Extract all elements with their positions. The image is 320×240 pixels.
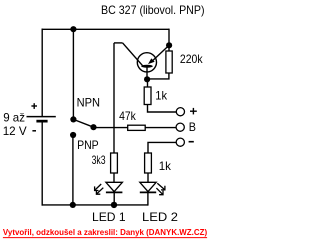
svg-text:9 až: 9 až <box>3 111 25 125</box>
transistor T1 base bar <box>141 65 153 68</box>
svg-text:Vytvořil, odzkoušel a zakresli: Vytvořil, odzkoušel a zakreslil: Danyk (… <box>3 227 207 237</box>
LED1 arrow 2 <box>96 188 103 195</box>
credit underline <box>3 237 207 239</box>
terminal B <box>176 123 184 131</box>
resistor 47k <box>128 125 146 130</box>
wire base vertical <box>113 43 115 153</box>
wire 3k3 to LED1 <box>113 173 115 183</box>
wire minus terminal to 1k lower <box>148 142 176 153</box>
label plus <box>190 108 197 115</box>
resistor 3k3 <box>111 153 118 173</box>
svg-text:NPN: NPN <box>77 95 100 109</box>
wire top rail <box>42 28 170 30</box>
battery plus sign <box>31 103 37 109</box>
LED2 arrow 1 <box>157 183 165 190</box>
switch S1 lever <box>73 119 93 127</box>
svg-text:LED 1: LED 1 <box>92 210 126 224</box>
wire 1k lower to LED2 <box>147 173 149 183</box>
node emitter junction <box>166 42 172 48</box>
LED2 arrow 2 <box>156 188 163 195</box>
node top junction <box>70 26 76 32</box>
switch S1 contact PNP <box>70 132 76 138</box>
wire collector node to 1k <box>147 79 149 87</box>
svg-text:BC 327 (libovol. PNP): BC 327 (libovol. PNP) <box>101 3 205 17</box>
wire 1k to plus terminal <box>148 105 177 113</box>
node bottom-left junction <box>70 202 76 208</box>
svg-text:PNP: PNP <box>77 138 99 152</box>
resistor 1k upper <box>144 87 151 105</box>
wire left rail (battery + side up) <box>41 29 43 117</box>
transistor T1 emitter wire <box>151 45 169 62</box>
resistor 1k lower <box>145 153 152 173</box>
svg-text:12 V: 12 V <box>3 124 27 138</box>
switch S1 contact NPN <box>70 116 76 122</box>
svg-text:1k: 1k <box>155 89 168 103</box>
node collector junction <box>144 76 150 82</box>
wire switch feed <box>72 29 74 119</box>
wire base diagonal <box>123 43 143 66</box>
terminal plus <box>176 108 184 116</box>
LED1 arrow 1 <box>95 184 102 191</box>
label minus <box>189 141 194 143</box>
battery B1 <box>27 117 56 123</box>
svg-text:47k: 47k <box>119 109 137 123</box>
wire bottom rail <box>42 204 148 206</box>
wire battery minus down <box>41 122 43 206</box>
wire LED2 to bottom rail <box>147 192 149 205</box>
svg-text:B: B <box>189 120 196 134</box>
wire LED1 to bottom rail <box>113 192 115 205</box>
wire base horizontal stub <box>114 42 123 44</box>
wire 220k bottom to collector node <box>147 73 169 79</box>
wire top rail corner down to emitter node <box>168 29 170 51</box>
svg-text:3k3: 3k3 <box>92 153 106 167</box>
battery minus sign <box>32 130 36 132</box>
transistor T1 emitter arrowhead <box>148 58 155 64</box>
wire base net horizontal <box>93 127 128 129</box>
switch S1 common <box>90 124 96 130</box>
svg-text:LED 2: LED 2 <box>142 210 178 224</box>
resistor 220k <box>166 51 172 73</box>
LED1 diode <box>106 182 123 192</box>
svg-text:1k: 1k <box>159 159 172 173</box>
LED2 diode <box>140 182 156 192</box>
node LED1 junction <box>111 202 117 208</box>
terminal minus <box>176 138 184 146</box>
transistor T1 collector wire <box>146 66 148 79</box>
svg-text:220k: 220k <box>180 52 204 66</box>
wire PNP contact to bottom rail <box>72 135 74 205</box>
wire 47k to B terminal <box>145 127 176 129</box>
transistor T1 body <box>137 53 156 72</box>
